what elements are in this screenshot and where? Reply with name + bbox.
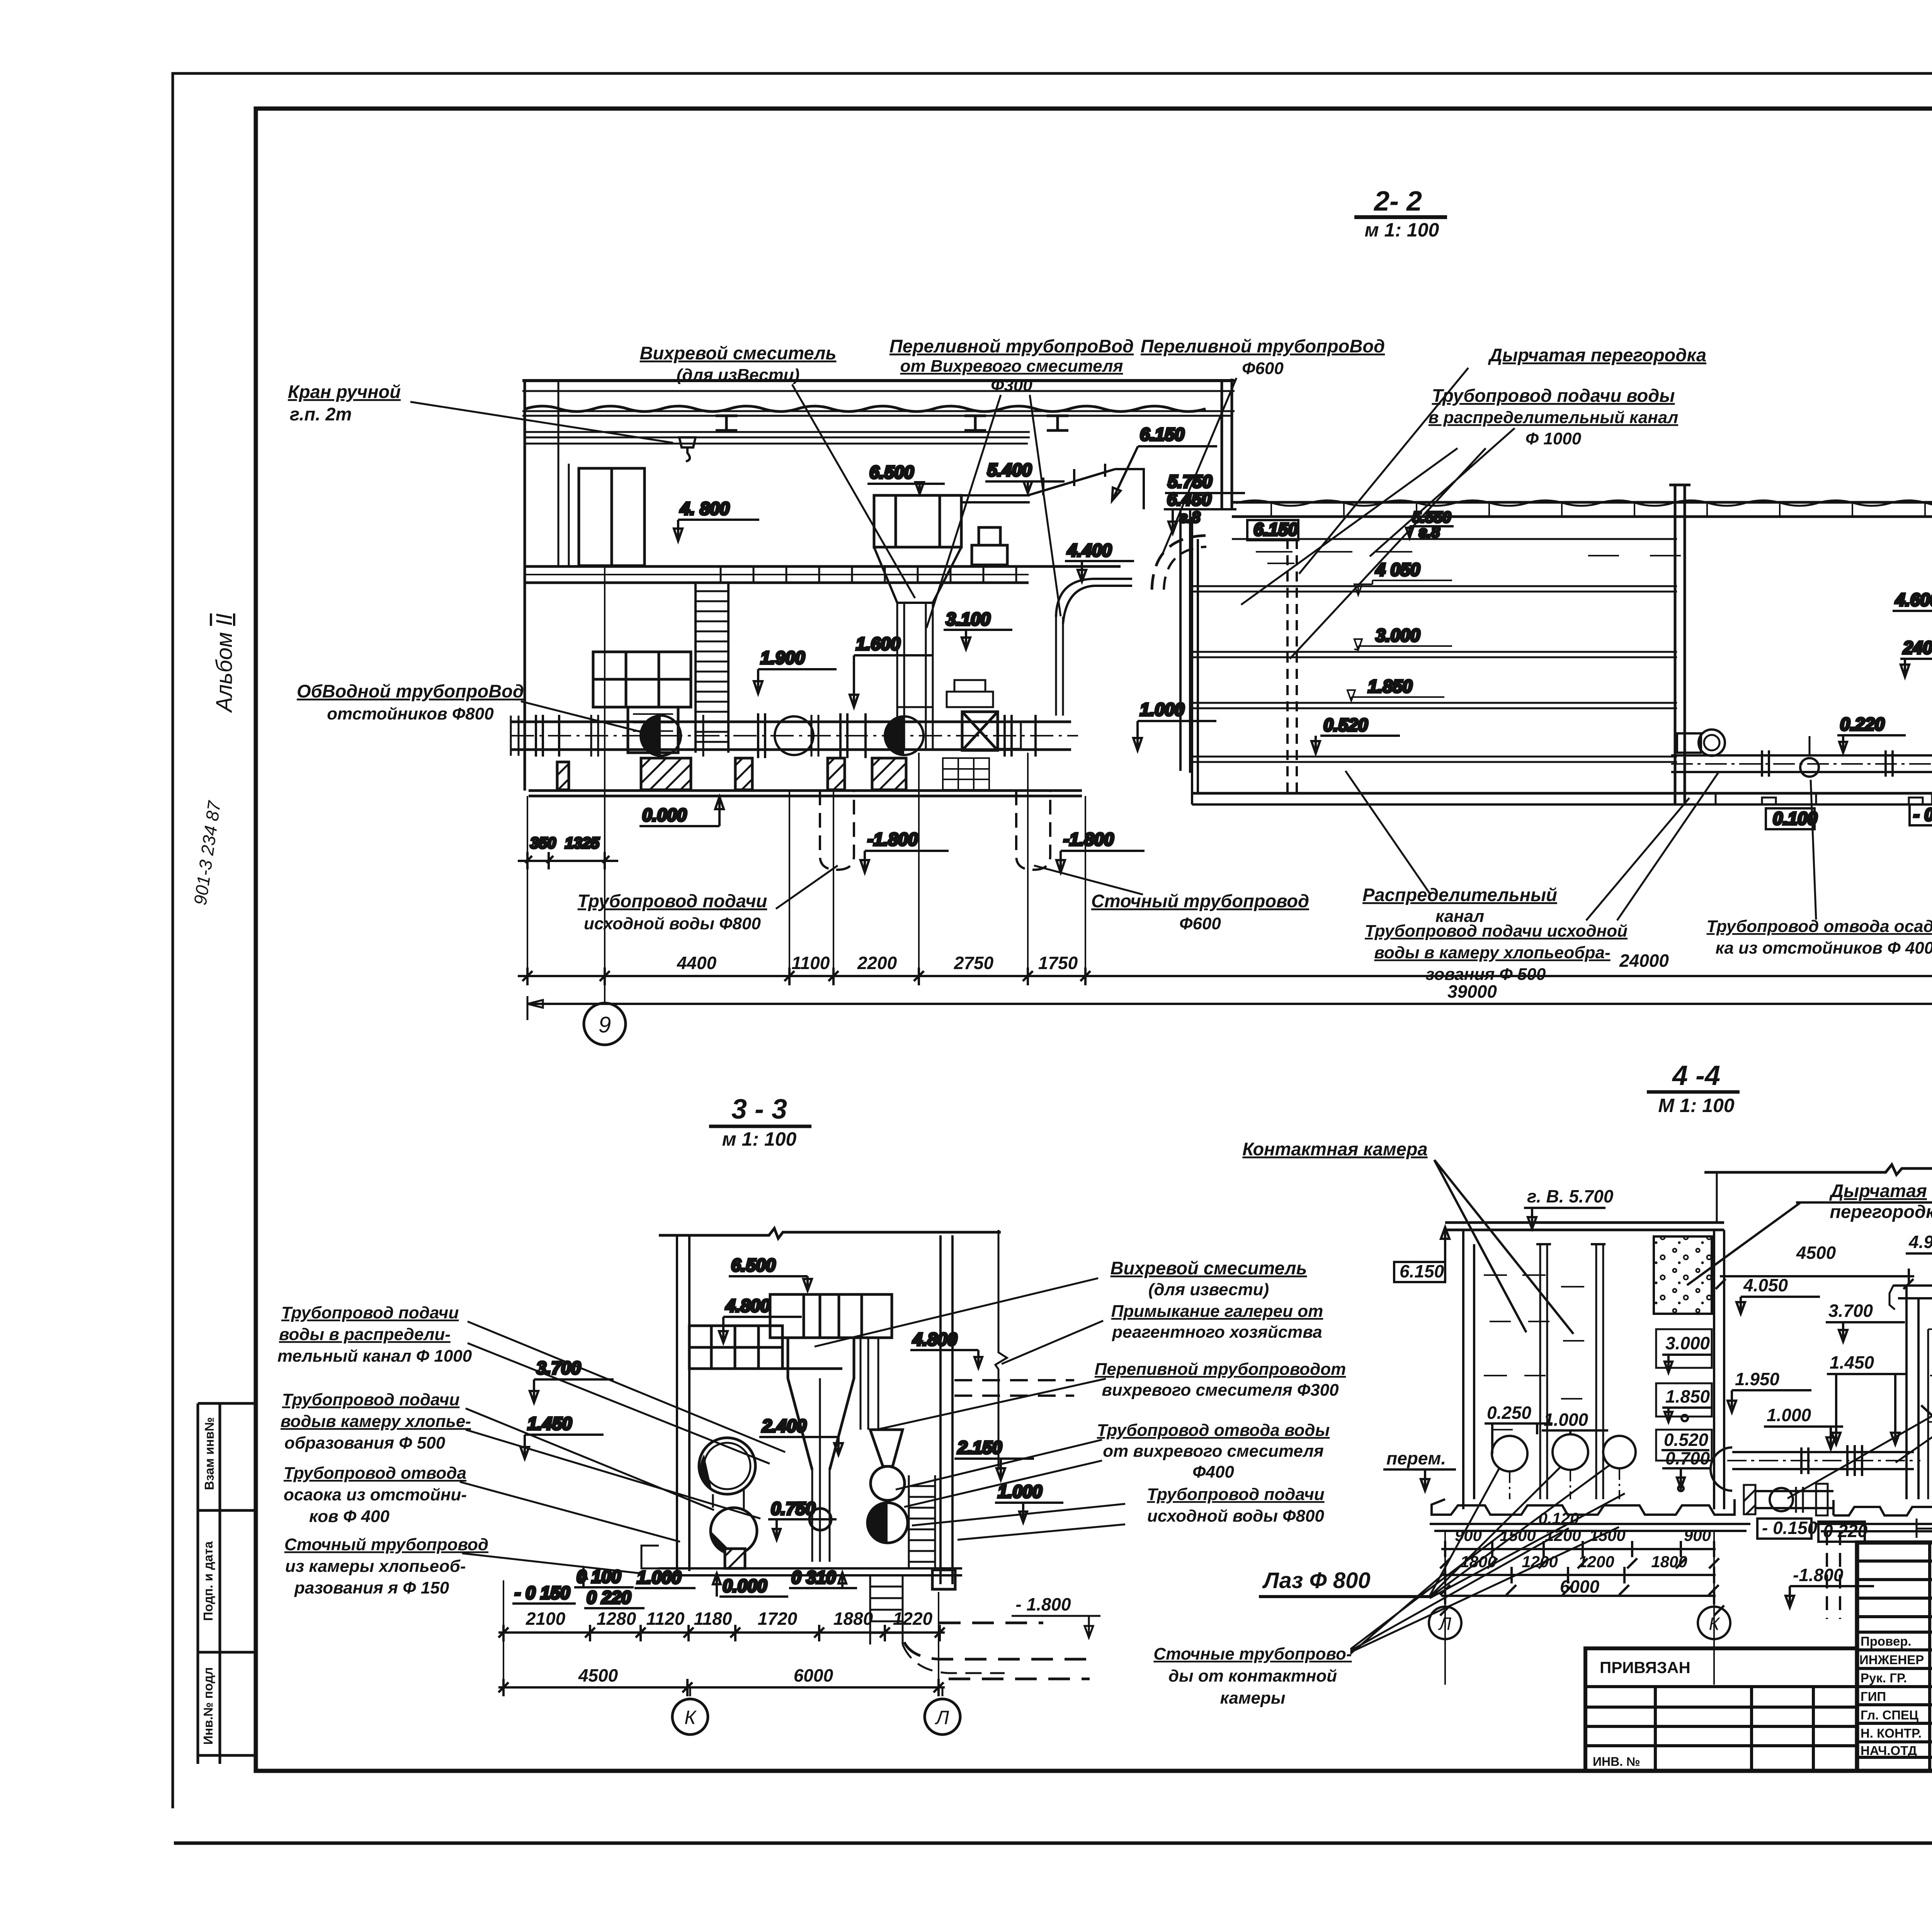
svg-text:Кран ручной: Кран ручной [288, 381, 401, 402]
building right wall [1222, 379, 1232, 509]
3-3 big circle right dark [867, 1503, 908, 1543]
4-4 right basin left lip [1889, 1286, 1906, 1309]
boxed 0.220 4-4 [1818, 1522, 1865, 1542]
svg-text:4400: 4400 [677, 953, 717, 973]
svg-text:6.150: 6.150 [1253, 519, 1298, 539]
walkway mid line [526, 574, 1029, 575]
2-2 bottom labels [578, 764, 1932, 984]
4-4 lower pipe with fittings [1754, 1491, 1833, 1508]
svg-text:0.520: 0.520 [1664, 1430, 1709, 1450]
4-4 dashed drop pipes [1827, 1531, 1840, 1619]
tee up at mixer [897, 707, 933, 722]
svg-text:Ф600: Ф600 [1242, 359, 1284, 378]
extension verticals [503, 1580, 939, 1689]
leader [1162, 378, 1236, 554]
svg-text:Альбом II: Альбом II [212, 614, 237, 713]
svg-text:Сточные трубопрово-: Сточные трубопрово- [1153, 1644, 1352, 1663]
leader [792, 384, 915, 598]
basin top slab double line [1232, 502, 1932, 517]
svg-text:из камеры хлопьеоб-: из камеры хлопьеоб- [285, 1557, 466, 1576]
svg-text:ПРИВЯЗАН: ПРИВЯЗАН [1600, 1658, 1690, 1677]
svg-text:1.950: 1.950 [1735, 1369, 1780, 1389]
svg-text:Перепивной трубопроводот: Перепивной трубопроводот [1095, 1360, 1346, 1379]
roof corrugation [526, 406, 1206, 412]
svg-text:камеры: камеры [1220, 1689, 1286, 1707]
boxed -0.150 [1910, 804, 1932, 825]
svg-text:ИНВ. №: ИНВ. № [1593, 1755, 1640, 1769]
canal left wall [1192, 517, 1198, 804]
middle wall [1675, 485, 1685, 804]
walkway 4.800 platform [526, 566, 1121, 583]
leaders to 4-4 circles [1430, 1464, 1625, 1598]
svg-text:5.400: 5.400 [987, 460, 1032, 480]
svg-text:0.250: 0.250 [1487, 1403, 1532, 1423]
svg-text:4 050: 4 050 [1375, 560, 1420, 580]
svg-text:водыв камеру хлопье-: водыв камеру хлопье- [281, 1412, 471, 1431]
2-2 basin level labels [1247, 509, 1454, 753]
axis circle К 4-4 [1698, 1607, 1730, 1639]
svg-text:отстойников Ф800: отстойников Ф800 [327, 704, 494, 723]
svg-text:1880: 1880 [833, 1609, 873, 1629]
svg-text:Трубопровод подачи: Трубопровод подачи [1147, 1485, 1324, 1504]
svg-text:- 1.800: - 1.800 [1015, 1594, 1071, 1614]
svg-text:1.450: 1.450 [1830, 1352, 1874, 1372]
svg-text:0.750: 0.750 [771, 1498, 816, 1519]
4-4 pipe circles [1492, 1436, 1527, 1471]
svg-text:2200: 2200 [857, 953, 897, 973]
3-3 dim row small [498, 1580, 945, 1696]
axis circle Л [925, 1699, 960, 1735]
svg-text:перем.: перем. [1386, 1448, 1446, 1468]
overflow elbow [1056, 579, 1132, 624]
svg-text:образования Ф 500: образования Ф 500 [284, 1434, 446, 1452]
3-3 gallery dashed floor [954, 1380, 1074, 1396]
leaders [927, 395, 1061, 628]
svg-text:1.000: 1.000 [1140, 699, 1185, 719]
svg-text:1220: 1220 [893, 1609, 933, 1629]
svg-text:г.8: г.8 [1179, 509, 1201, 526]
svg-text:0.220: 0.220 [1840, 714, 1885, 734]
svg-text:Трубопровод отвода воды: Трубопровод отвода воды [1097, 1421, 1330, 1440]
2-2 left labels [288, 336, 1706, 736]
4-4 level boxes right column [1656, 1329, 1712, 1368]
svg-text:м 1: 100: м 1: 100 [722, 1128, 797, 1150]
svg-text:Ф 1000: Ф 1000 [1526, 429, 1582, 448]
left strip column lines [198, 1403, 220, 1764]
3-3 hatch pad [725, 1549, 745, 1568]
svg-text:М 1: 100: М 1: 100 [1658, 1095, 1735, 1116]
svg-text:Распределительный: Распределительный [1362, 884, 1557, 905]
svg-text:900: 900 [1684, 1526, 1711, 1544]
3-3 elevation marks [512, 1255, 1063, 1608]
svg-text:воды в камеру хлопьеобра-: воды в камеру хлопьеобра- [1374, 943, 1610, 962]
svg-text:Инв.№ подл: Инв.№ подл [201, 1667, 215, 1745]
svg-text:тельный канал Ф 1000: тельный канал Ф 1000 [277, 1347, 472, 1366]
svg-text:-1.800: -1.800 [1793, 1565, 1844, 1585]
svg-text:6.450: 6.450 [1167, 489, 1212, 509]
4-4 right basin water dashes [1928, 1329, 1932, 1422]
svg-text:Контактная камера: Контактная камера [1242, 1139, 1427, 1159]
svg-text:Ф600: Ф600 [1179, 914, 1221, 933]
svg-text:-1.800: -1.800 [1063, 829, 1114, 849]
svg-text:Вихревой смеситель: Вихревой смеситель [1111, 1258, 1307, 1278]
platform 5.400 [961, 495, 1030, 502]
dashed drop pipe 2 [1016, 791, 1050, 870]
3-3 dashed collector to right [904, 1623, 1090, 1679]
chamber pipe flanges [1762, 750, 1932, 777]
4-4 right foundation line [1816, 1524, 1932, 1531]
svg-text:Лаз Ф 800: Лаз Ф 800 [1262, 1568, 1371, 1593]
svg-text:1200: 1200 [1522, 1553, 1558, 1571]
svg-text:3.100: 3.100 [946, 609, 991, 629]
3-3 big circle upper left [699, 1438, 755, 1494]
svg-text:1.000: 1.000 [998, 1481, 1043, 1502]
svg-text:4.050: 4.050 [1743, 1275, 1788, 1295]
3-3 right label leaders [815, 1278, 1125, 1540]
svg-text:1750: 1750 [1038, 953, 1078, 973]
svg-text:2750: 2750 [954, 953, 994, 973]
valve circle 1 [641, 716, 681, 756]
svg-text:- 0.150: - 0.150 [1762, 1518, 1818, 1538]
flange pairs [536, 713, 1036, 758]
4-4 partition caps [1536, 1243, 1605, 1245]
svg-text:Трубопровод отвода осад-: Трубопровод отвода осад- [1707, 917, 1932, 936]
svg-text:(для изВести): (для изВести) [677, 366, 800, 384]
svg-text:2400: 2400 [1903, 638, 1932, 658]
gate valve cross box [962, 712, 998, 750]
3-3 right funnel [870, 1430, 903, 1466]
extension verticals for dims [527, 753, 1085, 983]
svg-text:0.700: 0.700 [1665, 1448, 1710, 1468]
svg-text:24000: 24000 [1619, 951, 1669, 971]
leader [1299, 368, 1468, 574]
small tank below [628, 707, 678, 753]
title block outer frame [1857, 1542, 1932, 1771]
svg-text:3.000: 3.000 [1665, 1333, 1710, 1353]
dim numbers row1 [677, 949, 1932, 1002]
svg-text:0.000: 0.000 [642, 805, 687, 825]
perforated partition in channel [1287, 539, 1297, 793]
svg-text:Трубопровод подачи воды: Трубопровод подачи воды [1432, 385, 1675, 406]
svg-text:Подп. и дата: Подп. и дата [201, 1541, 215, 1621]
stair rails [696, 582, 728, 753]
water wave dashes [1256, 552, 1681, 563]
stair rungs [696, 591, 728, 742]
svg-text:0.100: 0.100 [1773, 808, 1818, 828]
pipe fitting 1 with stub [1677, 733, 1701, 753]
floor line 0.000 [529, 791, 1082, 796]
3-3 right wall [940, 1235, 952, 1584]
svg-text:вихревого смесителя Ф300: вихревого смесителя Ф300 [1102, 1381, 1339, 1400]
svg-text:воды в распредели-: воды в распредели- [279, 1325, 451, 1344]
svg-text:в распределительный канал: в распределительный канал [1429, 408, 1678, 427]
svg-text:от Вихревого смесителя: от Вихревого смесителя [900, 357, 1123, 376]
svg-text:К: К [684, 1707, 697, 1728]
crane hook [679, 437, 696, 461]
svg-text:6.500: 6.500 [869, 462, 914, 482]
svg-text:1500: 1500 [1589, 1526, 1625, 1544]
svg-text:0 310: 0 310 [791, 1567, 836, 1587]
svg-text:Переливной трубопроВод: Переливной трубопроВод [889, 336, 1134, 356]
signature table verticals [1930, 1542, 1932, 1771]
svg-text:4 -4: 4 -4 [1672, 1060, 1720, 1091]
3-3 left labels [277, 1303, 488, 1597]
svg-text:- 0.150: - 0.150 [1913, 804, 1932, 825]
water surface line [1232, 538, 1677, 540]
slab support ticks [1271, 502, 1932, 517]
hatched pads under pipe [641, 758, 691, 790]
svg-text:ГИП: ГИП [1861, 1689, 1886, 1704]
boxed 6.150 [1247, 520, 1298, 540]
4-4 upper slab line with break [1704, 1165, 1932, 1175]
3-3 left label leaders [460, 1321, 785, 1573]
3-3 foundation block [932, 1570, 955, 1589]
svg-text:Ф300: Ф300 [991, 376, 1032, 395]
svg-text:0.000: 0.000 [723, 1576, 767, 1596]
svg-text:Трубопровод подачи: Трубопровод подачи [282, 1390, 459, 1409]
svg-text:г. В. 5.700: г. В. 5.700 [1527, 1186, 1614, 1206]
3-3 mixer top box [770, 1294, 892, 1338]
valve circle 3 [885, 716, 923, 755]
svg-text:1200: 1200 [1545, 1526, 1581, 1544]
svg-text:1.450: 1.450 [527, 1413, 572, 1434]
big dashed elbow f600 [1152, 536, 1206, 590]
signature rows [1859, 1634, 1932, 1758]
svg-text:ка из отстойников Ф 400: ка из отстойников Ф 400 [1716, 939, 1932, 957]
4-4 right floor steps [1833, 1492, 1932, 1515]
basin level line 3.000 [1192, 652, 1677, 657]
3-3 top slab line with break [659, 1228, 1001, 1238]
4-4 right basin top [1893, 1286, 1932, 1298]
svg-text:исходной воды Ф800: исходной воды Ф800 [584, 914, 761, 933]
svg-text:0 220: 0 220 [1823, 1521, 1868, 1541]
3-3 pipe between circles [713, 1490, 744, 1509]
3-3 small circle on right pipe [871, 1466, 905, 1500]
svg-text:4.800: 4.800 [912, 1329, 957, 1349]
basin level line 0.520 [1192, 757, 1677, 762]
svg-text:1180: 1180 [694, 1609, 732, 1629]
4-4 foundation slab [1430, 1524, 1750, 1531]
svg-text:4.400: 4.400 [1067, 540, 1112, 560]
svg-text:1.850: 1.850 [1368, 676, 1413, 696]
svg-text:К: К [1709, 1614, 1720, 1634]
svg-text:1100: 1100 [792, 953, 830, 973]
svg-text:НАЧ.ОТД: НАЧ.ОТД [1861, 1743, 1917, 1758]
boxed 0.100 [1766, 808, 1815, 829]
svg-text:0 220: 0 220 [587, 1587, 631, 1607]
svg-text:1.600: 1.600 [856, 634, 901, 654]
svg-text:-1.800: -1.800 [867, 829, 918, 849]
svg-text:м 1: 100: м 1: 100 [1365, 219, 1439, 241]
4-4 feed pipe left cap [1711, 1447, 1732, 1491]
basin floor second line [1192, 803, 1932, 806]
svg-text:разования я Ф 150: разования я Ф 150 [294, 1578, 449, 1597]
svg-text:4.950: 4.950 [1908, 1232, 1932, 1252]
dim line row 2 39000 [527, 1003, 1932, 1005]
svg-text:перегородка: перегородка [1830, 1201, 1932, 1222]
2-2 right chamber labels [1766, 583, 1932, 862]
3-3 mixer drop pipes [812, 1378, 830, 1562]
3-3 left wall [677, 1235, 689, 1571]
roof slab top line [522, 379, 1235, 382]
svg-text:2.400: 2.400 [762, 1416, 807, 1436]
handrail grid left [593, 652, 691, 707]
pipe centerline [511, 735, 1078, 736]
basin slab corrugation bumps [1236, 500, 1932, 506]
building inner column left [558, 381, 569, 566]
svg-text:ков Ф 400: ков Ф 400 [309, 1507, 389, 1526]
svg-text:1325: 1325 [565, 835, 600, 852]
svg-text:2.150: 2.150 [957, 1437, 1002, 1457]
svg-text:Сточный трубопровод: Сточный трубопровод [284, 1535, 488, 1554]
left strip separators [198, 1403, 256, 1755]
svg-text:Трубопровод подачи: Трубопровод подачи [578, 891, 767, 911]
4-4 basin left wall [1463, 1230, 1474, 1509]
4-4 basin top slab [1445, 1223, 1724, 1230]
svg-text:осаока из отстойни-: осаока из отстойни- [284, 1485, 467, 1504]
leader [521, 701, 656, 736]
svg-text:реагентного хозяйства: реагентного хозяйства [1112, 1323, 1322, 1342]
4-4 dim rows [1440, 1531, 1724, 1685]
svg-text:Вихревой смеситель: Вихревой смеситель [640, 343, 837, 363]
svg-text:3.700: 3.700 [1828, 1301, 1873, 1321]
svg-text:5.750: 5.750 [1168, 471, 1213, 491]
valve stand small boxes [972, 545, 1007, 565]
4-4 right basin (flocculation chamber) [1906, 1286, 1918, 1499]
3-3 left platform grid [689, 1326, 842, 1369]
roof beam lines [522, 391, 1235, 416]
4-4 floor profile [1432, 1499, 1735, 1515]
vortex mixer top box [874, 495, 961, 547]
svg-text:6000: 6000 [794, 1665, 833, 1685]
svg-text:6000: 6000 [1560, 1576, 1600, 1597]
svg-text:1720: 1720 [758, 1609, 798, 1629]
svg-text:Трубопровод подачи: Трубопровод подачи [281, 1303, 459, 1322]
4-4 pipe flanges [1801, 1445, 1862, 1476]
leader to hook [410, 402, 673, 443]
svg-text:2100: 2100 [526, 1609, 566, 1629]
svg-text:Ф400: Ф400 [1192, 1463, 1234, 1481]
svg-text:ОбВодной трубопроВод: ОбВодной трубопроВод [297, 681, 524, 701]
svg-text:Дырчатая: Дырчатая [1829, 1180, 1927, 1201]
3-3 small circle center [810, 1508, 831, 1530]
2-2 elevation marks left part [518, 424, 1245, 872]
svg-text:исходной воды Ф800: исходной воды Ф800 [1147, 1507, 1324, 1525]
4-4 perforated panel [1654, 1236, 1712, 1314]
svg-text:4500: 4500 [1796, 1243, 1836, 1263]
3-3 big circle lower left dark [711, 1508, 757, 1554]
svg-text:1800: 1800 [1651, 1553, 1687, 1571]
svg-text:Взам инв№: Взам инв№ [202, 1417, 216, 1490]
svg-text:9: 9 [599, 1012, 611, 1037]
svg-text:Сточный трубопровод: Сточный трубопровод [1091, 891, 1309, 911]
svg-text:Примыкание галереи от: Примыкание галереи от [1111, 1302, 1323, 1321]
2-2 dimension rows [518, 968, 1932, 1020]
valve circle 2 [775, 716, 813, 755]
svg-text:Гл. СПЕЦ: Гл. СПЕЦ [1861, 1708, 1918, 1722]
svg-text:1.900: 1.900 [760, 648, 805, 668]
svg-text:3.700: 3.700 [536, 1358, 581, 1378]
svg-text:1.000: 1.000 [1544, 1410, 1588, 1430]
svg-text:350: 350 [530, 835, 556, 852]
3-3 break line right [995, 1230, 1007, 1470]
svg-text:1.850: 1.850 [1665, 1386, 1710, 1406]
dashed drop pipe 1 [820, 791, 854, 870]
4-4 right basin inner wall line [1927, 1329, 1929, 1499]
svg-text:1.000: 1.000 [637, 1567, 682, 1587]
small foundation marks under chamber [1716, 793, 1932, 804]
svg-text:Провер.: Провер. [1861, 1634, 1912, 1648]
3-3 right labels [1095, 1258, 1346, 1525]
svg-text:39000: 39000 [1447, 981, 1497, 1002]
svg-text:Дырчатая перегородка: Дырчатая перегородка [1488, 345, 1706, 365]
drawing frame [256, 109, 1932, 1771]
railing top right diagonal [1028, 464, 1144, 509]
main pipe f800 top/bottom [511, 722, 1071, 750]
boxed -0.150 4-4 [1757, 1519, 1811, 1539]
svg-text:(для известu): (для известu) [1148, 1280, 1269, 1299]
basin level line 4.050 [1192, 586, 1677, 592]
dim line row 1 [518, 975, 1932, 977]
4-4 partitions [1540, 1244, 1603, 1499]
basin floor line [1192, 792, 1932, 795]
svg-text:Рук. ГР.: Рук. ГР. [1861, 1671, 1907, 1685]
4-4 feed pipe horizontal [1732, 1452, 1914, 1469]
3-3 ladder right [909, 1475, 935, 1567]
svg-text:Трубопровод отвода: Трубопровод отвода [284, 1464, 466, 1483]
svg-text:4500: 4500 [578, 1665, 618, 1685]
pipe left stub [511, 716, 519, 756]
svg-text:г.п. 2т: г.п. 2т [290, 404, 352, 424]
extra pipe joints [591, 715, 818, 757]
axis circle Л 4-4 [1429, 1607, 1461, 1639]
svg-text:3 - 3: 3 - 3 [731, 1094, 787, 1125]
mixer drop pipes [897, 603, 933, 750]
signature table row lines [1857, 1561, 1932, 1757]
svg-text:Трубопровод подачи исходной: Трубопровод подачи исходной [1365, 922, 1628, 940]
chamber bottom pipe lines [1671, 755, 1932, 772]
svg-text:6.150: 6.150 [1400, 1261, 1444, 1281]
4-4 upper wall stub left [1716, 1172, 1718, 1223]
svg-text:6.500: 6.500 [731, 1255, 776, 1275]
svg-text:1120: 1120 [646, 1609, 685, 1629]
big cabinet on platform [579, 468, 645, 566]
svg-text:ИНЖЕНЕР: ИНЖЕНЕР [1859, 1653, 1924, 1667]
svg-text:1280: 1280 [597, 1609, 636, 1629]
I-beam hangers [716, 416, 1068, 430]
axis circle 9 [584, 1003, 626, 1045]
3-3 left floor step [641, 1546, 659, 1568]
4-4 sludge hopper diagonal [1921, 1405, 1932, 1494]
basin level line 1.850 [1192, 703, 1677, 708]
svg-text:2- 2: 2- 2 [1373, 186, 1422, 217]
axis circle К [672, 1699, 708, 1735]
svg-text:4.800: 4.800 [725, 1296, 770, 1316]
small grid pad [943, 758, 989, 790]
svg-text:3.000: 3.000 [1376, 625, 1420, 645]
pump unit near mixer [947, 680, 1021, 749]
svg-text:4. 800: 4. 800 [680, 498, 730, 519]
svg-text:1200: 1200 [1578, 1553, 1614, 1571]
leaders [1241, 428, 1515, 659]
4-4 water dashes [1484, 1275, 1584, 1430]
axis 9 vertical [604, 566, 605, 1005]
boxed 6.150 4-4 [1394, 1262, 1445, 1282]
svg-text:зования Ф 500: зования Ф 500 [1426, 965, 1546, 984]
svg-text:Л: Л [1438, 1614, 1451, 1634]
4-4 basin right wall [1714, 1230, 1724, 1509]
svg-text:ды от контактной: ды от контактной [1168, 1667, 1337, 1685]
